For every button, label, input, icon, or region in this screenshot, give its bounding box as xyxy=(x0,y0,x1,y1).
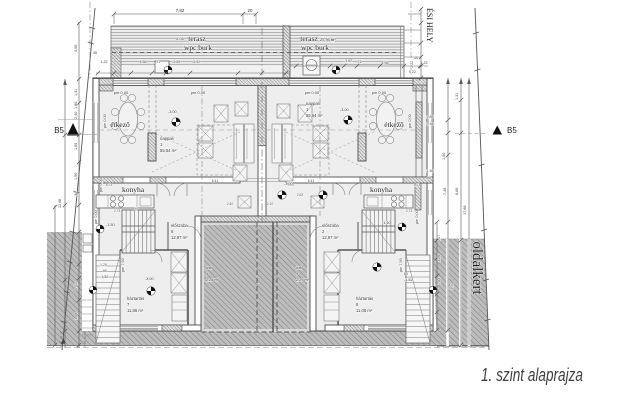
wing inner wall right xyxy=(310,216,316,331)
svg-text:1,22: 1,22 xyxy=(410,61,414,68)
svg-text:háztartás: háztartás xyxy=(356,296,373,301)
svg-text:wm: wm xyxy=(296,266,302,270)
svg-text:1. szint alaprajza: 1. szint alaprajza xyxy=(481,365,583,385)
svg-text:-3,00: -3,00 xyxy=(284,182,293,186)
svg-text:8,73: 8,73 xyxy=(106,183,113,187)
rear wall of center section xyxy=(198,216,313,222)
svg-text:2,40: 2,40 xyxy=(227,202,234,206)
svg-text:-1,50: -1,50 xyxy=(382,221,391,225)
left hatched area xyxy=(47,232,82,345)
svg-text:pm 0,00: pm 0,00 xyxy=(94,210,98,224)
kitchen divider wall left xyxy=(93,177,240,183)
level marker right wall xyxy=(429,286,437,294)
sight lines right xyxy=(286,132,374,172)
svg-text:-3,00: -3,00 xyxy=(168,110,177,114)
svg-text:pm 0,00: pm 0,00 xyxy=(191,90,206,95)
svg-text:,71: ,71 xyxy=(156,60,161,64)
svg-text:-3,00: -3,00 xyxy=(172,60,180,64)
svg-text:pm 0,00: pm 0,00 xyxy=(114,90,129,95)
svg-text:4,42: 4,42 xyxy=(74,283,78,290)
right wall xyxy=(427,79,433,331)
svg-text:pm 0,00: pm 0,00 xyxy=(408,114,412,128)
svg-text:11,06 m²: 11,06 m² xyxy=(356,308,373,313)
right site boundary xyxy=(475,8,489,350)
level marker hall top-right xyxy=(382,221,406,231)
svg-text:wpc burk: wpc burk xyxy=(301,43,329,52)
dash-dot vertical x=202 xyxy=(201,86,203,216)
svg-text:pm 0,00: pm 0,00 xyxy=(103,114,107,128)
sight lines left xyxy=(152,132,240,172)
kitchen divider wall right xyxy=(286,177,433,183)
svg-text:nappali: nappali xyxy=(306,101,320,106)
terrace deck (wpc) xyxy=(111,26,404,66)
bottom wall right wing xyxy=(325,325,433,331)
svg-text:7,82: 7,82 xyxy=(176,8,185,13)
sofa group left xyxy=(214,105,228,122)
svg-text:wpc burk: wpc burk xyxy=(184,43,212,52)
door threshold lines center xyxy=(240,178,286,180)
bottom site boundary xyxy=(47,345,489,347)
level marker bath left xyxy=(145,277,155,295)
boundary tick marks left xyxy=(89,27,95,29)
svg-text:oldalkert: oldalkert xyxy=(469,241,485,295)
courtyard axis lines xyxy=(256,222,258,332)
partial wall stub left (nappali/etkezo) xyxy=(148,85,150,133)
terrace center post xyxy=(283,26,290,78)
svg-text:6,41: 6,41 xyxy=(212,179,219,183)
svg-text:60: 60 xyxy=(404,272,408,276)
svg-text:9: 9 xyxy=(296,272,298,276)
svg-text:20: 20 xyxy=(247,8,253,13)
door arc left bath xyxy=(150,250,162,262)
svg-text:pm 0,00: pm 0,00 xyxy=(99,178,103,192)
svg-text:7,64: 7,64 xyxy=(437,278,441,285)
svg-text:2,26 m²: 2,26 m² xyxy=(206,278,220,282)
flower boxes left of entry xyxy=(83,234,92,243)
level marker living left xyxy=(168,110,180,126)
hall partition left xyxy=(120,249,188,251)
level markers near center rear wall xyxy=(278,182,293,199)
svg-text:B5: B5 xyxy=(54,126,64,135)
fixtures left unit xyxy=(171,252,187,272)
level marker living right xyxy=(340,108,352,124)
left dimension column xyxy=(78,22,80,348)
svg-text:2,10: 2,10 xyxy=(267,202,274,206)
bottom dashed verticals xyxy=(60,331,62,347)
svg-text:4,17: 4,17 xyxy=(437,235,441,242)
door arc right bath xyxy=(352,250,364,262)
svg-text:5,22: 5,22 xyxy=(409,70,416,74)
svg-text:háztartás: háztartás xyxy=(127,296,144,301)
svg-text:előszoba: előszoba xyxy=(322,223,339,228)
svg-text:3,10: 3,10 xyxy=(450,283,454,290)
svg-text:terasz: terasz xyxy=(188,34,206,43)
horizontal dashed mid living xyxy=(99,129,258,131)
left wall xyxy=(93,79,99,331)
kitchen doors right xyxy=(349,183,361,195)
right inner wall stub xyxy=(415,86,417,177)
svg-text:55,54 m²: 55,54 m² xyxy=(160,148,177,153)
svg-text:-3,00: -3,00 xyxy=(145,277,154,281)
level marker hall top-left xyxy=(96,223,115,233)
svg-text:12,97 m²: 12,97 m² xyxy=(322,235,339,240)
dining table left xyxy=(119,102,138,136)
svg-text:előszoba: előszoba xyxy=(171,223,188,228)
svg-text:1,50: 1,50 xyxy=(442,153,446,160)
boundary tick marks right xyxy=(473,32,479,34)
right hatched strip (oldalkert) xyxy=(433,239,489,347)
interior stair left (double flight) xyxy=(122,210,155,253)
kitchen counter right xyxy=(364,195,413,208)
svg-text:konyha: konyha xyxy=(370,185,393,194)
svg-text:34: 34 xyxy=(74,192,78,196)
svg-text:6,06: 6,06 xyxy=(176,36,185,41)
svg-text:8,73: 8,73 xyxy=(414,183,421,187)
sofa group right xyxy=(298,105,312,122)
svg-text:1,31: 1,31 xyxy=(74,89,78,96)
svg-text:11,86 m²: 11,86 m² xyxy=(127,308,144,313)
svg-text:ÉSI HELY: ÉSI HELY xyxy=(425,8,435,43)
bottom wall left wing xyxy=(93,325,201,331)
svg-text:B5: B5 xyxy=(507,126,517,135)
svg-text:3,28: 3,28 xyxy=(437,255,441,262)
svg-text:1,50: 1,50 xyxy=(426,169,433,173)
svg-text:étkező: étkező xyxy=(384,120,404,129)
svg-text:13,68: 13,68 xyxy=(58,199,62,208)
svg-text:45: 45 xyxy=(93,51,97,55)
svg-text:1,69: 1,69 xyxy=(74,143,78,150)
svg-text:-1,52: -1,52 xyxy=(404,278,413,282)
bottom hatched strip xyxy=(47,331,437,345)
party wall xyxy=(258,86,266,223)
svg-text:1,20: 1,20 xyxy=(100,263,107,267)
partial wall stub right xyxy=(358,85,360,133)
fixtures right unit xyxy=(324,252,340,272)
building slab xyxy=(93,78,433,331)
svg-text:90: 90 xyxy=(134,207,138,211)
center courtyard hatched square xyxy=(201,222,310,332)
svg-text:6,41: 6,41 xyxy=(308,179,315,183)
svg-text:7,48: 7,48 xyxy=(443,188,447,195)
svg-text:1,80: 1,80 xyxy=(426,115,433,119)
main staircase right xyxy=(406,255,430,343)
svg-text:2,73: 2,73 xyxy=(114,209,121,213)
terrace dashed line xyxy=(112,52,396,54)
svg-text:1,50: 1,50 xyxy=(74,173,78,180)
svg-text:6,66: 6,66 xyxy=(455,188,459,195)
svg-text:wm: wm xyxy=(206,266,212,270)
wing inner wall left xyxy=(195,216,201,331)
kitchen counter left xyxy=(96,195,154,208)
B5 marker right xyxy=(493,126,503,135)
svg-text:2,40: 2,40 xyxy=(426,122,433,126)
svg-text:pm 0,00: pm 0,00 xyxy=(372,90,387,95)
svg-text:1,22: 1,22 xyxy=(101,60,108,64)
svg-text:-3,62: -3,62 xyxy=(344,59,352,63)
svg-text:17,88: 17,88 xyxy=(463,205,467,215)
svg-text:étkező: étkező xyxy=(110,120,130,129)
svg-text:konyha: konyha xyxy=(122,185,145,194)
dash-dot vertical left margin xyxy=(89,2,91,78)
dining table right xyxy=(377,102,396,136)
svg-text:pm 7,50: pm 7,50 xyxy=(399,258,403,272)
left site boundary xyxy=(62,8,95,350)
svg-text:2,40: 2,40 xyxy=(74,112,78,119)
hall partition right xyxy=(338,249,406,251)
svg-text:5: 5 xyxy=(206,272,208,276)
door arc right hall xyxy=(310,226,324,240)
white channels in right hatch xyxy=(446,239,449,346)
svg-text:90: 90 xyxy=(427,176,431,180)
interior stair right (double flight) xyxy=(362,210,395,253)
svg-text:1,22: 1,22 xyxy=(421,61,428,65)
svg-text:4,56: 4,56 xyxy=(140,60,147,64)
top right dimension column xyxy=(420,8,422,78)
svg-text:-3,00: -3,00 xyxy=(340,108,349,112)
door arc left hall xyxy=(187,226,201,240)
main staircase left xyxy=(96,255,120,343)
svg-text:-1,50: -1,50 xyxy=(106,223,115,227)
svg-text:2,29 m²: 2,29 m² xyxy=(296,278,310,282)
svg-text:1,68: 1,68 xyxy=(74,313,78,320)
dash-dot vertical x=320 xyxy=(319,86,321,216)
svg-text:pm 0,00: pm 0,00 xyxy=(415,210,419,224)
svg-text:-1,52: -1,52 xyxy=(100,275,108,279)
svg-text:pm 0,00: pm 0,00 xyxy=(305,90,320,95)
svg-text:1,80: 1,80 xyxy=(74,102,78,109)
top dimension line xyxy=(114,13,256,15)
svg-text:2,62: 2,62 xyxy=(297,193,304,197)
top wall with windows xyxy=(93,79,433,86)
svg-text:12,97 m²: 12,97 m² xyxy=(171,235,188,240)
svg-text:60: 60 xyxy=(103,269,107,273)
dash-dot vertical right margin xyxy=(410,2,412,78)
svg-text:,45: ,45 xyxy=(413,56,418,60)
right dimension columns xyxy=(436,222,438,330)
outside entry steps left xyxy=(82,299,93,301)
level marker left wall xyxy=(89,286,97,294)
kitchen doors left xyxy=(157,183,170,196)
svg-text:2,73: 2,73 xyxy=(406,209,413,213)
svg-text:-5,02: -5,02 xyxy=(192,60,200,64)
svg-text:1,31: 1,31 xyxy=(455,93,459,100)
center dash-dot axis xyxy=(261,28,263,222)
B5 marker left xyxy=(67,123,79,136)
svg-text:nappali: nappali xyxy=(160,136,174,141)
terrace dimension row xyxy=(96,72,290,74)
svg-text:55,54 m²: 55,54 m² xyxy=(306,113,323,118)
terrace level boxes xyxy=(155,61,169,73)
svg-text:4,56: 4,56 xyxy=(382,61,389,65)
svg-text:3,06: 3,06 xyxy=(74,45,78,52)
svg-text:pm 7,50: pm 7,50 xyxy=(121,258,125,272)
svg-text:,71: ,71 xyxy=(357,60,362,64)
level marker bath right xyxy=(373,263,413,282)
